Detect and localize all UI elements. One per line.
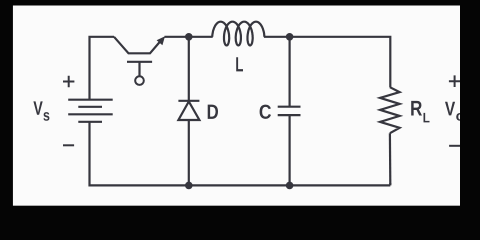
diode D wire top [188,37,190,101]
label Vs: V [33,101,42,114]
wire left vertical (top corner down to battery) [88,37,114,100]
capacitor C wire bottom [289,115,291,185]
minus sign left [63,144,74,146]
switch control terminal circle [135,76,144,85]
wire resistor bottom to bottom-right corner [389,133,392,184]
node B2 dot (bottom) [286,182,294,190]
label D [208,105,218,119]
battery Vs plates [68,100,113,122]
switch base bar [127,61,152,63]
plus sign left [63,76,74,88]
label Vo: V [445,102,455,116]
wire node A to inductor [189,36,213,38]
switch S body [114,37,162,54]
label C [260,105,271,119]
capacitor C wire top [289,37,291,107]
node A dot [185,33,193,41]
node B dot [286,33,294,41]
wire switch arrow to node A [165,36,189,38]
label Vs: s subscript [43,112,49,121]
resistor RL zigzag [380,87,400,133]
capacitor C plates [278,107,301,115]
switch control stem [138,62,140,76]
minus sign right [449,145,461,147]
inductor L coil [212,22,264,46]
plus sign right [449,75,460,87]
diode D wire bottom [188,120,190,185]
label RL: R [411,101,422,116]
label Vo: o subscript (clipped by frame) [456,113,464,121]
wire inductor to node B [264,36,290,38]
wire node B to top-right corner down to resistor [290,37,391,87]
label RL: L subscript [424,113,430,123]
diode D cathode bar [178,100,199,102]
diode D triangle [178,102,199,121]
bottom wire [88,122,390,187]
switch arrowhead [157,36,165,45]
label L [236,57,243,71]
node A2 dot (bottom) [185,182,193,190]
